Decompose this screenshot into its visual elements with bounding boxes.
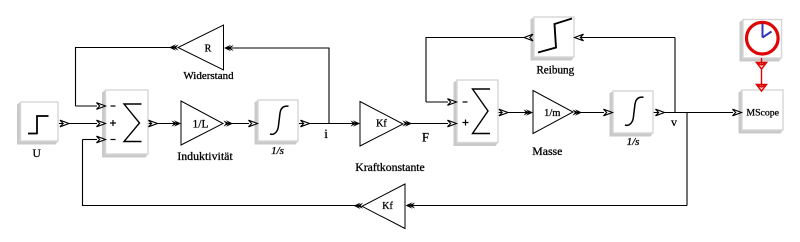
input port of MScope — [733, 109, 742, 116]
summation block Sum2 — [454, 80, 499, 146]
gain Kf (Kraftkonstante) — [360, 102, 403, 147]
output port of I1 — [301, 120, 310, 127]
output port of Sum2 — [499, 109, 508, 116]
input port of R — [224, 45, 231, 51]
input port of 1/L — [174, 120, 181, 126]
wire Kf gain to Sum2 plus input — [411, 123, 448, 125]
svg-text:Kf: Kf — [376, 119, 387, 130]
wire branch down from node v to bottom Kf input — [686, 113, 688, 206]
wire 1/m gain to integrator I2 — [578, 112, 604, 114]
svg-text:1/L: 1/L — [193, 119, 209, 131]
input port of 1/m — [526, 109, 533, 115]
svg-text:Reibung: Reibung — [536, 65, 574, 77]
svg-text:1/s: 1/s — [271, 145, 284, 157]
clock block — [740, 20, 782, 62]
output port of Sum1 — [149, 120, 158, 127]
gain 1/m (Masse) — [533, 91, 573, 134]
event link clock to MScope (red) — [761, 58, 763, 86]
output port of R — [169, 44, 176, 50]
wire Sum2 to 1/m gain — [499, 112, 527, 114]
svg-text:R: R — [205, 44, 212, 55]
wire branch up from node i to R input — [328, 48, 330, 124]
svg-text:Induktivität: Induktivität — [177, 149, 233, 163]
scope block MScope — [739, 90, 784, 134]
wire U to Sum1 — [59, 123, 97, 125]
input ports of Sum2 — [448, 99, 457, 106]
svg-text:Masse: Masse — [532, 144, 562, 158]
wire Sum1 to 1/L gain — [149, 123, 176, 125]
svg-text:Kraftkonstante: Kraftkonstante — [355, 161, 424, 174]
svg-text:U: U — [32, 148, 41, 160]
output port of bottom Kf — [354, 203, 361, 209]
integrator block I1 — [255, 100, 299, 145]
svg-text:v: v — [671, 115, 677, 129]
output port of I2 — [656, 109, 665, 116]
wire branch up from node v to Reibung input — [674, 38, 676, 113]
nonlinear block Reibung — [531, 17, 575, 61]
wire Reibung output to Sum2 minus input — [426, 37, 525, 39]
svg-text:1/m: 1/m — [544, 108, 560, 119]
input port of I1 — [249, 120, 258, 127]
wire I1 to Kf gain, node i — [299, 123, 353, 125]
input ports of Sum1 — [97, 103, 106, 110]
svg-text:Kf: Kf — [382, 201, 393, 212]
svg-text:i: i — [324, 126, 328, 141]
gain Kf bottom (back-EMF) — [362, 184, 405, 229]
wire 1/L gain to integrator I1 — [228, 123, 249, 125]
input port of Kf — [353, 120, 360, 126]
integrator block I2 — [610, 91, 654, 137]
output port of 1/m — [575, 109, 582, 115]
output port of Reibung — [524, 34, 533, 41]
gain R (Widerstand) — [178, 25, 224, 70]
output port of Kf — [405, 120, 412, 126]
step source block U — [17, 102, 58, 145]
wire R output to Sum1 top input — [76, 47, 171, 49]
output port of U — [60, 120, 69, 127]
summation block Sum1 — [102, 90, 148, 158]
output port of 1/L — [226, 120, 233, 126]
svg-text:Widerstand: Widerstand — [183, 70, 234, 82]
wire I2 to MScope, node v — [654, 112, 734, 114]
input port of Reibung — [575, 34, 584, 41]
input port of I2 — [604, 109, 613, 116]
svg-text:MScope: MScope — [746, 108, 779, 119]
wire bottom Kf output to Sum1 bottom input — [83, 205, 357, 207]
svg-text:F: F — [422, 131, 429, 145]
svg-text:1/s: 1/s — [627, 136, 640, 148]
input port of bottom Kf — [406, 202, 413, 208]
gain 1/L (Induktivitaet) — [181, 101, 223, 145]
